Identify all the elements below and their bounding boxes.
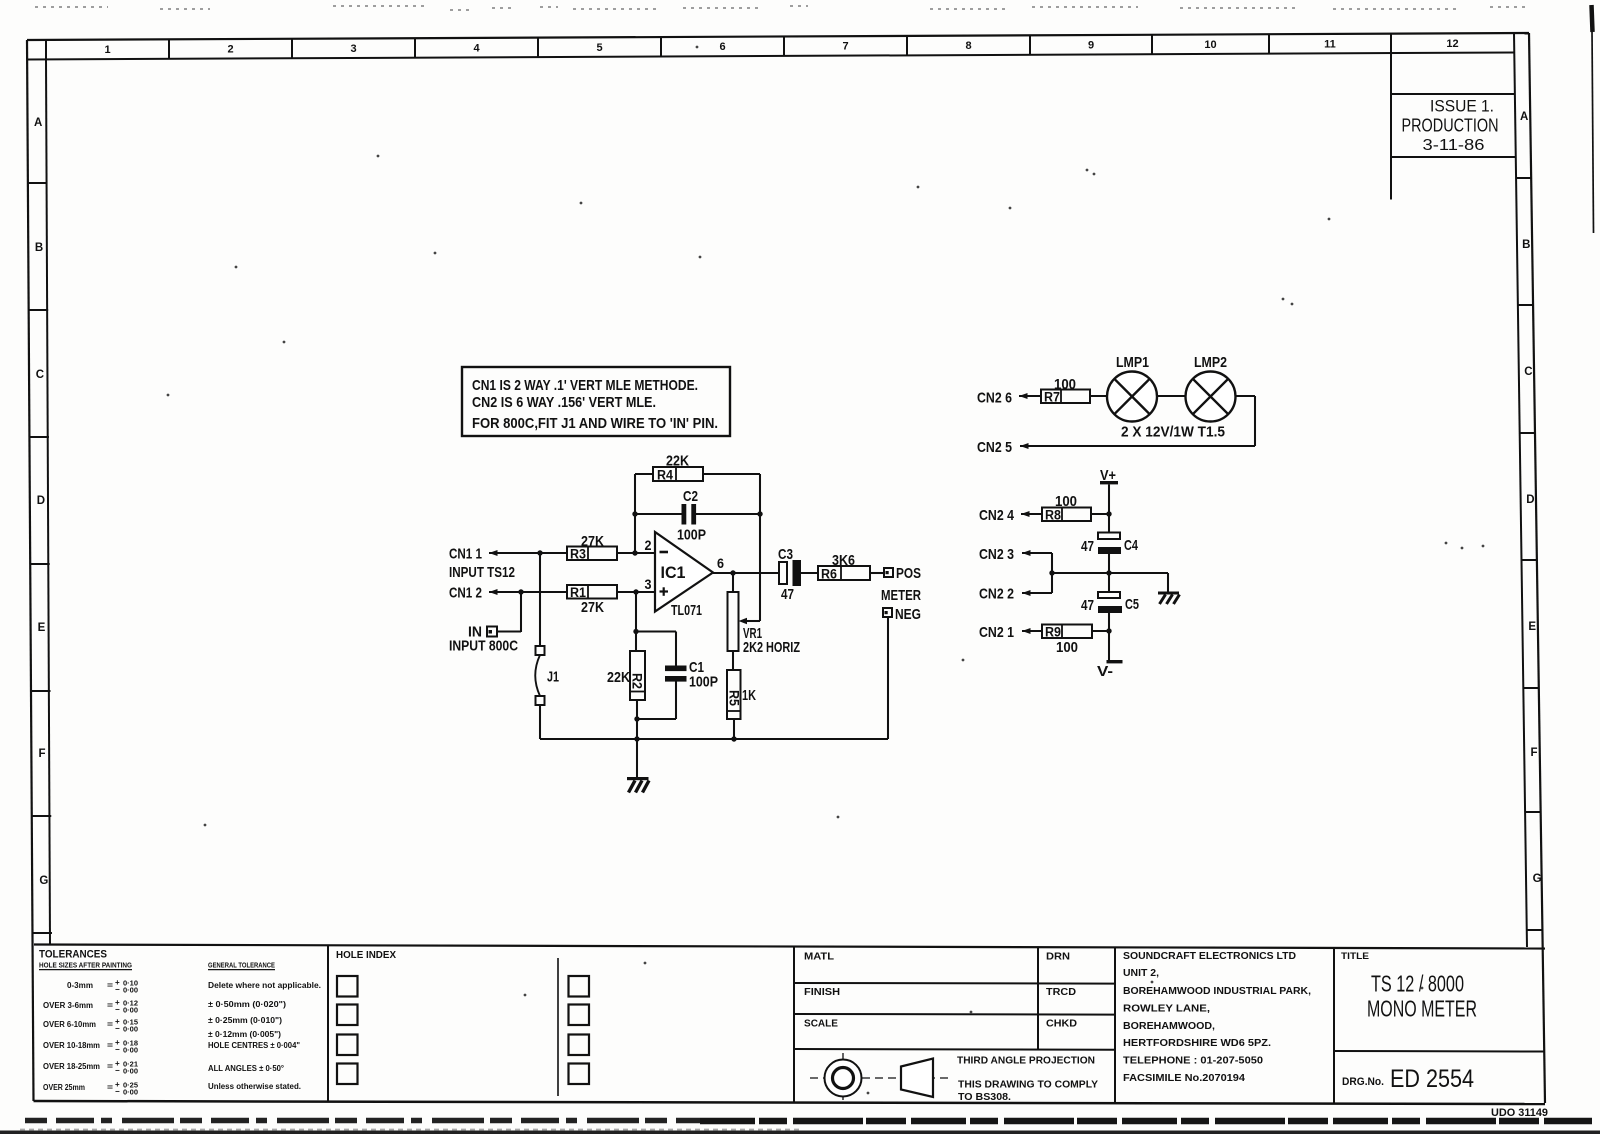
svg-text:OVER 10-18mm: OVER 10-18mm [43, 1041, 100, 1050]
wire NEG to ground rail [887, 617, 889, 739]
svg-text:TO BS308.: TO BS308. [958, 1092, 1011, 1103]
svg-text:HERTFORDSHIRE WD6 5PZ.: HERTFORDSHIRE WD6 5PZ. [1123, 1038, 1271, 1049]
jumper J1 [535, 646, 559, 705]
wire LMP2 to CN2 5 [1020, 396, 1255, 446]
svg-text:D: D [1526, 494, 1534, 506]
resistor R8 [1042, 508, 1091, 523]
svg-text:TL071: TL071 [671, 602, 702, 619]
IC1 type TL071 [671, 602, 702, 619]
svg-text:BOREHAMWOOD INDUSTRIAL PARK,: BOREHAMWOOD INDUSTRIAL PARK, [1123, 986, 1311, 997]
pin 3 [645, 576, 652, 592]
svg-text:Delete where not applicable.: Delete where not applicable. [208, 981, 321, 990]
svg-text:CN1 IS 2 WAY .1' VERT MLE METH: CN1 IS 2 WAY .1' VERT MLE METHODE. [472, 377, 698, 394]
svg-text:C: C [1524, 366, 1532, 378]
wire to ground symbol [636, 739, 638, 777]
svg-text:=: = [107, 1062, 113, 1071]
svg-text:6: 6 [719, 41, 725, 53]
svg-text:IC1: IC1 [661, 563, 686, 582]
svg-text:TS 12 / 8000: TS 12 / 8000 [1371, 971, 1464, 997]
svg-text:1: 1 [104, 44, 110, 56]
lamp LMP1 [1107, 372, 1157, 422]
lamp LMP2 [1186, 372, 1236, 422]
wire R9 to V- rail [1092, 630, 1109, 632]
R2 value 22K [607, 669, 630, 686]
svg-text:ISSUE 1.: ISSUE 1. [1430, 97, 1494, 116]
R9 value 100 [1056, 639, 1078, 656]
svg-text:0·10: 0·10 [123, 981, 138, 988]
svg-text:SCALE: SCALE [804, 1019, 838, 1030]
svg-text:A: A [34, 117, 42, 129]
wire R2 to ground rail [634, 700, 639, 742]
wire center node horizontal [1049, 570, 1168, 575]
svg-text:2: 2 [227, 44, 233, 56]
capacitor C3 [779, 560, 801, 586]
wire feedback left branch [632, 474, 653, 553]
resistor R9 [1042, 625, 1092, 640]
svg-text:NEG: NEG [895, 606, 921, 623]
node POS [884, 565, 921, 582]
svg-text:CN2 3: CN2 3 [979, 546, 1014, 563]
svg-text:± 0·25mm (0·010"): ± 0·25mm (0·010") [208, 1016, 282, 1025]
svg-text:FOR 800C,FIT J1 AND WIRE TO 'I: FOR 800C,FIT J1 AND WIRE TO 'IN' PIN. [472, 415, 718, 432]
C2 value 100P [677, 527, 706, 544]
wire CN1 2 to R1 [489, 591, 567, 593]
svg-text:0·12: 0·12 [123, 1001, 138, 1008]
C1 label [689, 659, 704, 676]
node INPUT 800C [449, 638, 518, 655]
svg-text:12: 12 [1446, 38, 1458, 50]
wire feedback right branch [703, 474, 763, 621]
svg-text:DRG.No.: DRG.No. [1342, 1076, 1384, 1088]
svg-text:J1: J1 [547, 669, 559, 686]
power V+ [1100, 467, 1118, 484]
svg-text:FINISH: FINISH [804, 987, 840, 998]
svg-text:FACSIMILE No.2070194: FACSIMILE No.2070194 [1123, 1073, 1245, 1084]
svg-text:OVER 25mm: OVER 25mm [43, 1083, 85, 1092]
svg-text:TOLERANCES: TOLERANCES [39, 949, 107, 961]
svg-text:CN2 5: CN2 5 [977, 439, 1012, 456]
wire CN1 1 to R3 [489, 552, 567, 554]
wire R6 to POS [870, 572, 884, 574]
svg-text:=: = [107, 1083, 113, 1092]
svg-text:2: 2 [645, 537, 652, 553]
svg-text:B: B [35, 242, 43, 254]
svg-text:HOLE INDEX: HOLE INDEX [336, 949, 396, 961]
svg-text:R4: R4 [657, 468, 673, 483]
svg-text:=: = [107, 1020, 113, 1029]
svg-text:B: B [1522, 239, 1530, 251]
wire pin3 node down to R2 [633, 592, 638, 651]
VR1 label [743, 625, 762, 642]
svg-text:F: F [39, 748, 46, 760]
svg-text:R5: R5 [727, 690, 742, 706]
svg-text:MONO METER: MONO METER [1367, 996, 1477, 1022]
svg-text:HOLE CENTRES ± 0·004": HOLE CENTRES ± 0·004" [208, 1041, 300, 1050]
C5 label [1125, 596, 1139, 613]
node CN2 2 [979, 586, 1031, 603]
svg-text:GENERAL TOLERANCE: GENERAL TOLERANCE [208, 963, 275, 970]
svg-text:R1: R1 [570, 585, 586, 600]
C5 value 47 [1081, 597, 1094, 614]
lamps value 2 X 12V/1W T1.5 [1121, 424, 1225, 441]
svg-text:CN1 2: CN1 2 [449, 585, 482, 602]
wire R7 to LMP1 [1090, 395, 1107, 397]
R8 value 100 [1055, 493, 1077, 510]
potentiometer VR1 [728, 592, 739, 651]
svg-text:TITLE: TITLE [1341, 951, 1369, 962]
svg-text:G: G [1533, 873, 1542, 885]
node IN (INPUT 800C pin) [468, 624, 497, 641]
svg-text:THIRD ANGLE PROJECTION: THIRD ANGLE PROJECTION [957, 1056, 1095, 1067]
wire IN pin to CN1 2 line [497, 589, 524, 632]
wire junction CN1 1 to J1 [537, 550, 542, 646]
svg-text:CN2 2: CN2 2 [979, 586, 1014, 603]
svg-text:0·00: 0·00 [123, 1090, 138, 1097]
svg-text:OVER 18-25mm: OVER 18-25mm [43, 1062, 100, 1071]
R6 value 3K6 [832, 552, 855, 569]
wire R3 to pin 2 [617, 550, 655, 555]
label METER [881, 587, 921, 604]
svg-text:C: C [36, 369, 44, 381]
svg-text:TELEPHONE : 01-207-5050: TELEPHONE : 01-207-5050 [1123, 1056, 1263, 1067]
svg-text:2 X 12V/1W T1.5: 2 X 12V/1W T1.5 [1121, 424, 1225, 441]
svg-text:−: − [115, 1005, 120, 1014]
C4 label [1124, 537, 1138, 554]
svg-text:0·25: 0·25 [123, 1083, 138, 1090]
svg-text:F: F [1531, 747, 1538, 759]
svg-text:100P: 100P [677, 527, 706, 544]
svg-text:0·00: 0·00 [123, 1027, 138, 1034]
svg-text:E: E [1528, 621, 1536, 633]
svg-text:−: − [115, 985, 120, 994]
svg-text:ROWLEY LANE,: ROWLEY LANE, [1123, 1004, 1210, 1015]
R3 value 27K [581, 533, 604, 550]
svg-text:0·00: 0·00 [123, 1008, 138, 1015]
node CN2 6 [977, 390, 1028, 407]
svg-text:C4: C4 [1124, 537, 1138, 554]
wire CN2 4 to R8 [1021, 513, 1042, 515]
node CN2 1 [979, 624, 1031, 641]
node INPUT TS12 [449, 564, 515, 581]
svg-text:G: G [39, 875, 48, 887]
svg-text:INPUT 800C: INPUT 800C [449, 638, 518, 655]
svg-text:11: 11 [1324, 38, 1336, 50]
C3 label [778, 546, 793, 563]
node CN2 4 [979, 507, 1030, 524]
note box [462, 367, 730, 436]
R4 value 22K [666, 453, 689, 470]
wire C2 row [635, 513, 760, 515]
ground rail wire [540, 738, 888, 740]
resistor R2 [630, 651, 646, 700]
svg-text:9: 9 [1088, 39, 1094, 51]
svg-text:8: 8 [965, 40, 971, 52]
capacitor C5 [1098, 592, 1122, 613]
C3 value 47 [781, 586, 794, 603]
power V- [1097, 660, 1123, 680]
svg-text:V-: V- [1097, 663, 1113, 680]
wire C1 bottom branch [634, 682, 676, 722]
svg-text:−: − [115, 1087, 120, 1096]
svg-text:CN1 1: CN1 1 [449, 546, 482, 563]
svg-text:−: − [115, 1024, 120, 1033]
svg-text:C2: C2 [683, 488, 698, 505]
svg-text:UDO 31149: UDO 31149 [1491, 1107, 1548, 1119]
LMP2 label [1194, 354, 1227, 371]
svg-text:UNIT 2,: UNIT 2, [1123, 968, 1159, 979]
svg-text:7: 7 [842, 41, 848, 53]
wire CN2 3 to center node [1022, 553, 1052, 573]
pin 2 [645, 537, 652, 553]
wire op-amp output [713, 570, 780, 575]
svg-text:0·21: 0·21 [123, 1062, 138, 1069]
svg-text:E: E [38, 622, 46, 634]
wire LMP1 to LMP2 [1157, 395, 1186, 397]
capacitor C4 [1098, 533, 1121, 555]
svg-text:0·15: 0·15 [123, 1020, 138, 1027]
svg-text:100P: 100P [689, 674, 718, 691]
wire output to VR1 [732, 573, 734, 592]
capacitor C1 [665, 666, 687, 682]
svg-text:R9: R9 [1045, 625, 1061, 640]
resistor R3 [567, 547, 617, 562]
svg-text:THIS DRAWING TO COMPLY: THIS DRAWING TO COMPLY [958, 1080, 1098, 1091]
svg-text:27K: 27K [581, 533, 604, 550]
node CN2 5 [977, 439, 1029, 456]
svg-text:ALL ANGLES ± 0·50°: ALL ANGLES ± 0·50° [208, 1064, 284, 1073]
svg-text:LMP2: LMP2 [1194, 354, 1227, 371]
svg-text:0·00: 0·00 [123, 1048, 138, 1055]
svg-text:± 0·50mm (0·020"): ± 0·50mm (0·020") [208, 1000, 286, 1009]
svg-text:2K2 HORIZ: 2K2 HORIZ [743, 639, 800, 656]
svg-text:C3: C3 [778, 546, 793, 563]
wire CN2 1 to R9 [1022, 630, 1042, 632]
wire C4 to center node [1106, 554, 1111, 592]
node CN1 2 [449, 585, 498, 602]
svg-text:LMP1: LMP1 [1116, 354, 1149, 371]
svg-text:INPUT TS12: INPUT TS12 [449, 564, 515, 581]
svg-text:D: D [37, 495, 45, 507]
wire C1 top branch [636, 632, 676, 667]
wire R8 to V+ rail [1091, 513, 1109, 515]
R1 value 27K [581, 599, 604, 616]
ground (CN2 center) [1158, 592, 1180, 605]
node CN2 3 [979, 546, 1031, 563]
svg-text:47: 47 [1081, 538, 1094, 555]
svg-text:5: 5 [596, 42, 602, 54]
svg-text:CN2 1: CN2 1 [979, 624, 1014, 641]
svg-text:Unless otherwise stated.: Unless otherwise stated. [208, 1082, 301, 1091]
C2 label [683, 488, 698, 505]
wire VR1 to R5 [732, 651, 734, 670]
node CN1 1 [449, 546, 498, 563]
svg-text:100: 100 [1056, 639, 1078, 656]
svg-text:C5: C5 [1125, 596, 1139, 613]
svg-text:3K6: 3K6 [832, 552, 855, 569]
wire V+ to R8 node [1106, 485, 1111, 534]
svg-text:100: 100 [1055, 493, 1077, 510]
svg-text:10: 10 [1204, 39, 1216, 51]
C1 value 100P [689, 674, 718, 691]
svg-text:22K: 22K [607, 669, 630, 686]
svg-text:METER: METER [881, 587, 921, 604]
svg-text:CN2 IS 6 WAY .156' VERT MLE.: CN2 IS 6 WAY .156' VERT MLE. [472, 394, 656, 411]
svg-text:−: − [115, 1066, 120, 1075]
svg-text:0·18: 0·18 [123, 1041, 138, 1048]
svg-text:HOLE SIZES AFTER PAINTING: HOLE SIZES AFTER PAINTING [39, 963, 132, 970]
wire CN2 6 to R7 [1019, 395, 1041, 397]
svg-text:=: = [107, 1001, 113, 1010]
svg-text:=: = [107, 981, 113, 990]
svg-text:4: 4 [473, 42, 480, 54]
VR1 value 2K2 HORIZ [743, 639, 800, 656]
capacitor C2 [682, 504, 697, 525]
op-amp IC1 TL071 [655, 532, 713, 612]
wire C5 to R9 node [1106, 613, 1111, 660]
svg-text:DRN: DRN [1046, 952, 1070, 963]
R7 value 100 [1054, 376, 1076, 393]
svg-text:CN2 4: CN2 4 [979, 507, 1015, 524]
svg-text:PRODUCTION: PRODUCTION [1402, 116, 1499, 136]
resistor R7 [1041, 390, 1090, 405]
wire center node to ground [1167, 573, 1169, 592]
resistor R6 [818, 566, 870, 582]
svg-text:27K: 27K [581, 599, 604, 616]
svg-text:A: A [1520, 111, 1528, 123]
wire R5 to ground rail [731, 719, 736, 742]
svg-text:3: 3 [645, 576, 652, 592]
svg-text:SOUNDCRAFT ELECTRONICS LTD: SOUNDCRAFT ELECTRONICS LTD [1123, 951, 1296, 962]
wire R1 to pin 3 [617, 589, 655, 594]
svg-text:3-11-86: 3-11-86 [1423, 137, 1485, 154]
resistor R4 [653, 467, 703, 483]
svg-text:OVER 6-10mm: OVER 6-10mm [43, 1020, 96, 1029]
svg-text:CN2 6: CN2 6 [977, 390, 1012, 407]
svg-text:POS: POS [896, 565, 921, 582]
wire C3 to R6 [801, 572, 818, 574]
svg-text:OVER 3-6mm: OVER 3-6mm [43, 1001, 93, 1010]
svg-text:6: 6 [717, 555, 724, 571]
R5 value 1K [742, 687, 756, 704]
svg-text:ED 2554: ED 2554 [1390, 1065, 1474, 1093]
resistor R1 [567, 585, 617, 600]
svg-text:47: 47 [1081, 597, 1094, 614]
wire CN2 2 to center node [1022, 573, 1052, 593]
C4 value 47 [1081, 538, 1094, 555]
svg-text:3: 3 [350, 43, 356, 55]
svg-text:=: = [107, 1041, 113, 1050]
pin 6 [717, 555, 724, 571]
svg-text:R2: R2 [630, 673, 645, 689]
svg-text:22K: 22K [666, 453, 689, 470]
wire J1 to ground rail [539, 705, 541, 739]
svg-text:BOREHAMWOOD,: BOREHAMWOOD, [1123, 1021, 1215, 1032]
svg-text:± 0·12mm (0·005"): ± 0·12mm (0·005") [208, 1030, 281, 1039]
resistor R5 [727, 670, 742, 719]
ground [627, 777, 649, 793]
svg-text:1K: 1K [742, 687, 756, 704]
svg-text:100: 100 [1054, 376, 1076, 393]
svg-text:MATL: MATL [804, 952, 834, 963]
svg-text:0·00: 0·00 [123, 1069, 138, 1076]
VR1 wiper wire with arrow [739, 618, 761, 625]
svg-text:−: − [115, 1045, 120, 1054]
svg-text:0-3mm: 0-3mm [67, 981, 93, 990]
svg-text:47: 47 [781, 586, 794, 603]
LMP1 label [1116, 354, 1149, 371]
svg-text:TRCD: TRCD [1046, 987, 1076, 998]
svg-text:0·00: 0·00 [123, 988, 138, 995]
svg-text:CHKD: CHKD [1046, 1019, 1077, 1030]
node NEG [883, 606, 921, 623]
